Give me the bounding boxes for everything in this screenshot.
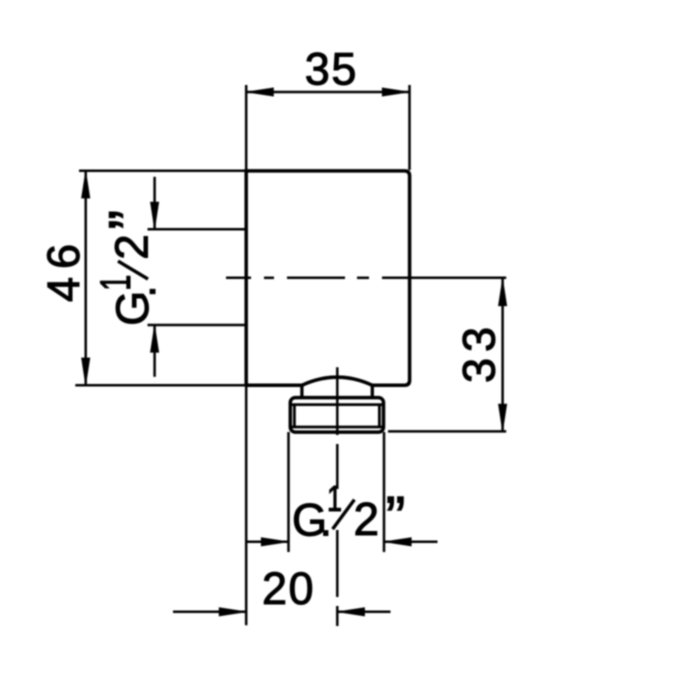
dim G1/2 left: lower arrowhead (points up)	[150, 325, 158, 352]
dim 20: left arrowhead (points right)	[219, 608, 246, 616]
dim 46: top extension line	[79, 170, 246, 173]
dim 35: left extension line	[245, 85, 248, 170]
dim 46: bottom arrowhead	[82, 358, 90, 385]
dome arc over outlet	[302, 377, 372, 385]
label G.1/2" bottom	[292, 478, 405, 552]
dim 20: dimension line right segment	[337, 611, 390, 614]
dim 35: dimension line	[246, 91, 409, 94]
dim G1/2 bottom: dimension line left segment	[247, 541, 289, 544]
horizontal centerline (dash-dot through body)	[226, 277, 506, 280]
dim 35: left arrowhead	[246, 88, 273, 96]
svg-text:1: 1	[92, 275, 140, 291]
dim G1/2 bottom: left extension line	[287, 432, 290, 552]
dim 20: dimension line left segment	[173, 611, 247, 614]
svg-text:46: 46	[38, 236, 89, 302]
dim G1/2 bottom: right arrowhead (points left)	[384, 538, 411, 546]
dim 33: top arrowhead	[498, 279, 506, 306]
neck left side	[300, 384, 303, 398]
dim 46: top arrowhead	[82, 171, 90, 198]
dim 33: bottom arrowhead	[498, 404, 506, 431]
dim G1/2 left: upper arrowhead (points down)	[150, 202, 158, 229]
body outline (wall elbow, side view)	[246, 171, 409, 385]
svg-text:”: ”	[97, 210, 164, 230]
dim 20: right arrowhead (points left)	[337, 608, 364, 616]
dim G1/2 left: bottom extension line	[148, 324, 246, 327]
neck right side	[371, 384, 374, 398]
svg-text:2: 2	[354, 493, 380, 545]
dim 35: right arrowhead	[382, 88, 409, 96]
dim 46: bottom extension line	[75, 384, 246, 387]
dim 33: bottom extension line	[388, 430, 506, 433]
nut right chamfer edge	[378, 405, 381, 427]
nut (G1/2 outlet) outline	[290, 398, 383, 433]
label G.1/2" left (rotated)	[92, 210, 165, 326]
dim G1/2 bottom: dimension line right segment	[384, 541, 438, 544]
dim 46: dimension line	[84, 171, 87, 385]
svg-text:20: 20	[262, 563, 315, 614]
dim 20: left edge extension line (body left edge extended)	[245, 385, 248, 625]
dim G1/2 left: dimension line lower segment	[153, 325, 156, 377]
dim G1/2 left: top extension line	[148, 228, 246, 231]
dim 35: right extension line	[408, 85, 411, 170]
dim G1/2 bottom: left arrowhead (points right)	[261, 538, 288, 546]
svg-text:1: 1	[327, 478, 342, 519]
nut left chamfer edge	[293, 405, 296, 427]
svg-text:33: 33	[454, 321, 505, 383]
svg-text:”: ”	[386, 485, 406, 552]
vertical centerline (outlet axis)	[336, 367, 339, 626]
dim 33: dimension line	[501, 279, 504, 432]
nut bottom chamfer line	[292, 426, 383, 429]
svg-text:35: 35	[305, 44, 358, 95]
dim G1/2 left: dimension line upper segment	[153, 177, 156, 230]
dim G1/2 bottom: right extension line	[383, 432, 386, 552]
nut top chamfer line	[292, 403, 383, 406]
svg-text:2: 2	[106, 234, 158, 260]
